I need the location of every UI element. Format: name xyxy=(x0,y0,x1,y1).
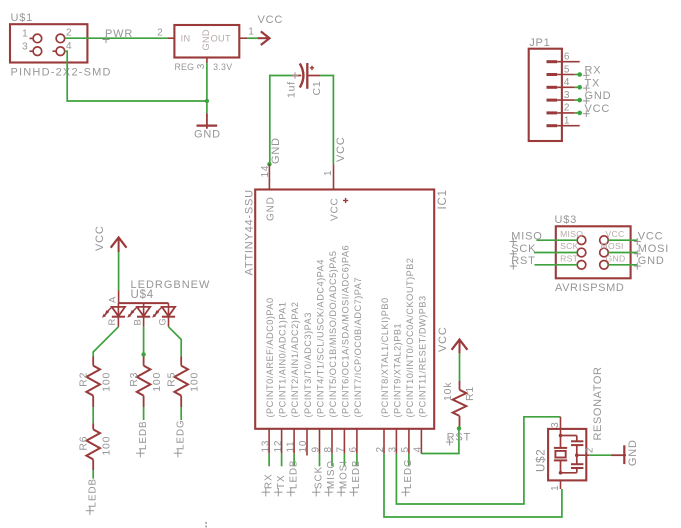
svg-text:4: 4 xyxy=(66,41,72,52)
connector U$3 right pad GND xyxy=(600,261,609,270)
svg-text:AVRISPSMD: AVRISPSMD xyxy=(555,282,624,294)
svg-text:5: 5 xyxy=(400,446,411,452)
LED U$4 pin name B xyxy=(132,318,143,325)
svg-text:1: 1 xyxy=(323,170,334,176)
wire C1 right (VCC side) xyxy=(320,76,333,165)
junction node JP1 pin 4 xyxy=(577,85,582,90)
svg-text:C1: C1 xyxy=(311,80,323,95)
svg-text:MOSI: MOSI xyxy=(339,460,350,489)
svg-text:3: 3 xyxy=(196,63,207,69)
svg-text:U$3: U$3 xyxy=(555,214,578,226)
svg-text:2: 2 xyxy=(66,28,72,39)
regulator pin 1 OUT wire xyxy=(239,27,259,39)
connector U$3 pin name VCC xyxy=(606,229,625,239)
wire MISO to U$3 xyxy=(537,239,578,241)
svg-text:2: 2 xyxy=(157,27,163,38)
svg-text:14: 14 xyxy=(260,165,271,178)
svg-text:RST: RST xyxy=(511,255,535,267)
connector U$1 pin 2 xyxy=(56,28,72,43)
connector U$3 pin name RST xyxy=(560,254,579,264)
power symbol VCC (above R1) xyxy=(437,326,467,353)
svg-text:100: 100 xyxy=(151,372,163,392)
svg-text:11: 11 xyxy=(285,441,296,453)
IC1 pin 2 name xyxy=(380,297,390,417)
resistor R1 value 10k xyxy=(442,382,454,401)
connector U$1 pin 4 xyxy=(53,41,73,56)
svg-text:R5: R5 xyxy=(166,372,178,387)
svg-text:TX: TX xyxy=(585,77,601,89)
IC1 pin 6 number xyxy=(348,446,359,452)
IC1 pin 12 stub xyxy=(281,429,283,454)
IC1 pin 9 number xyxy=(311,446,322,452)
svg-text:VCC: VCC xyxy=(437,326,449,352)
connector U$3 pin name MOSI xyxy=(601,241,624,251)
svg-text:VCC: VCC xyxy=(638,231,664,243)
svg-text:IN: IN xyxy=(181,33,191,43)
svg-text:G: G xyxy=(157,317,168,325)
svg-text:100: 100 xyxy=(101,372,113,392)
junction node (pin4/regulator GND) xyxy=(205,99,209,103)
svg-text:VCC: VCC xyxy=(335,136,347,162)
capacitor C1 name xyxy=(311,80,323,95)
net label LEDB (below R3) xyxy=(136,420,149,457)
svg-text:VCC: VCC xyxy=(585,103,611,115)
resistor R2 value 100 xyxy=(101,372,113,392)
connector U$3 value AVRISPSMD xyxy=(555,282,624,294)
svg-text:U$4: U$4 xyxy=(131,289,155,301)
svg-text:2: 2 xyxy=(585,447,596,453)
IC1 pin 9 name xyxy=(316,259,326,417)
power symbol VCC (top, pointing right) xyxy=(258,14,284,45)
IC1 pin 2 number xyxy=(375,446,386,452)
net label GND (resonator) xyxy=(627,439,639,466)
wire SCK to U$3 xyxy=(534,252,577,254)
wire R2 to R6 xyxy=(92,407,94,423)
svg-text:R2: R2 xyxy=(78,372,90,387)
svg-text:(PCINT7/ICP/OC0B/ADC7)PA7: (PCINT7/ICP/OC0B/ADC7)PA7 xyxy=(353,277,363,417)
net label GND (U$3 right) xyxy=(634,255,665,270)
svg-text:10k: 10k xyxy=(442,382,454,401)
IC1 reference IC1 xyxy=(437,189,449,209)
connector U$3 body xyxy=(556,226,631,278)
wire IC1 pin4 to RST junction xyxy=(421,428,459,453)
IC1 pin 10 stub xyxy=(306,429,308,456)
IC1 body xyxy=(255,190,434,429)
net label TX xyxy=(274,474,287,496)
svg-text:3: 3 xyxy=(388,446,399,452)
IC1 pin 13 stub xyxy=(268,429,270,454)
wire U$3 to GND xyxy=(608,264,637,266)
svg-text:3: 3 xyxy=(550,422,561,428)
connector U$1 pin 1 xyxy=(22,29,42,43)
resonator U$2 internal capacitors xyxy=(561,436,584,473)
regulator value 3.3V xyxy=(213,62,232,72)
svg-text:RESONATOR: RESONATOR xyxy=(592,366,604,440)
svg-text:SCK: SCK xyxy=(560,241,579,251)
svg-text:LEDG: LEDG xyxy=(403,458,414,489)
svg-text:R6: R6 xyxy=(78,436,90,451)
IC1 pin 1 stub xyxy=(333,164,335,189)
header JP1 pin 3 xyxy=(547,90,575,101)
wire IC1 pin net RX xyxy=(268,454,270,467)
resonator U$2 pin 3 stub xyxy=(560,417,562,436)
net label LEDB (below R6) xyxy=(86,478,99,515)
svg-text:VCC: VCC xyxy=(606,229,625,239)
IC1 pin 10 name xyxy=(303,312,313,417)
header JP1 pin 6 xyxy=(547,52,580,63)
svg-text:(PCINT5/OC1B/MISO/DO/ADC5)PA5: (PCINT5/OC1B/MISO/DO/ADC5)PA5 xyxy=(328,251,338,418)
resonator U$2 pin 3 number xyxy=(550,422,561,428)
connector U$3 left pad SCK xyxy=(577,248,586,257)
net label VCC (JP1) xyxy=(583,103,610,117)
IC1 pin 12 name xyxy=(278,301,288,417)
svg-text:LEDG: LEDG xyxy=(175,419,186,450)
IC1 pin 8 name xyxy=(328,251,338,418)
header JP1 pin 5 xyxy=(547,64,575,75)
regulator pin IN name xyxy=(181,33,191,43)
resistor R1 name xyxy=(464,386,476,401)
regulator pin GND name xyxy=(201,29,211,50)
svg-text:GND: GND xyxy=(606,254,626,264)
wire junction to GND symbol xyxy=(206,101,208,113)
wire VCC to U$4 anode xyxy=(118,252,120,291)
resistor R1 xyxy=(453,381,467,428)
svg-text:MOSI: MOSI xyxy=(638,243,669,255)
wire IC1 pin2 to resonator pin1 xyxy=(384,454,562,517)
svg-text:(PCINT8/XTAL1/CLKI)PB0: (PCINT8/XTAL1/CLKI)PB0 xyxy=(380,297,390,417)
svg-text:RX: RX xyxy=(585,65,602,77)
svg-text:B: B xyxy=(132,318,143,325)
svg-text:JP1: JP1 xyxy=(529,37,550,49)
connector U$1 value label xyxy=(11,67,112,79)
svg-text:GND: GND xyxy=(201,29,211,50)
net label PWR xyxy=(103,28,134,43)
svg-text:1: 1 xyxy=(248,27,254,38)
svg-text:10: 10 xyxy=(298,440,309,453)
junction node RST xyxy=(457,426,461,430)
connector U$3 pin name GND xyxy=(606,254,626,264)
junction node LED B wire xyxy=(141,352,145,356)
IC1 pin 9 stub xyxy=(319,429,321,454)
svg-text:7: 7 xyxy=(336,446,347,452)
svg-text:REG: REG xyxy=(175,62,195,72)
wire R6 to LEDB label xyxy=(92,470,94,479)
svg-text:2: 2 xyxy=(564,103,570,114)
IC1 pin 1 number xyxy=(323,170,334,176)
resistor R6 xyxy=(86,423,100,470)
svg-text:LEDB: LEDB xyxy=(288,459,299,489)
wire JP1 pin 4 stub xyxy=(575,86,580,88)
svg-text:MISO: MISO xyxy=(511,231,542,243)
IC1 pin 1 name VCC xyxy=(329,197,340,221)
svg-text:PINHD-2X2-SMD: PINHD-2X2-SMD xyxy=(11,67,112,79)
resonator U$2 bottom junction xyxy=(559,471,563,475)
svg-text:(PCINT3/T0/ADC3)PA3: (PCINT3/T0/ADC3)PA3 xyxy=(303,312,313,417)
svg-text:3.3V: 3.3V xyxy=(213,62,232,72)
svg-text:8: 8 xyxy=(323,446,334,452)
connector U$1 pin 3 xyxy=(22,42,42,56)
regulator pin 2 number xyxy=(157,27,163,38)
svg-text:U$2: U$2 xyxy=(535,449,547,473)
svg-text:1uf: 1uf xyxy=(285,81,297,98)
resistor R6 name xyxy=(78,436,90,451)
LED U$4 anode bus xyxy=(118,302,168,304)
wire IC1 pin net LEDB xyxy=(293,454,295,467)
wire resonator pin2 to GND xyxy=(589,454,611,456)
svg-text:A: A xyxy=(107,296,118,303)
IC1 pin 14 number xyxy=(260,165,271,178)
svg-text:SCK: SCK xyxy=(511,243,536,255)
junction node at IC1 pin 14 xyxy=(267,162,271,166)
resonator U$2 mid junction xyxy=(575,453,579,457)
wire PWR net (U$1 pin2 to regulator IN) xyxy=(65,37,175,39)
IC1 pin 11 stub xyxy=(293,429,295,454)
IC1 pin 13 number xyxy=(260,440,271,453)
net label MISO (U$3 left) xyxy=(510,231,543,246)
svg-text:1: 1 xyxy=(550,485,561,491)
svg-text:100: 100 xyxy=(189,372,201,392)
header JP1 pin 2 xyxy=(547,103,575,114)
svg-text:SCK: SCK xyxy=(314,466,325,489)
svg-text:LEDB: LEDB xyxy=(351,459,362,489)
IC1 pin 10 number xyxy=(298,440,309,453)
resonator U$2 pin 1 stub xyxy=(560,480,562,489)
capacitor C1 symbol xyxy=(291,63,320,89)
svg-text:(PCINT4/T1/SCL/USCK/ADC4)PA4: (PCINT4/T1/SCL/USCK/ADC4)PA4 xyxy=(316,259,326,417)
resonator U$2 crystal xyxy=(554,436,567,473)
svg-text:(PCINT0/AREF/ADC0)PA0: (PCINT0/AREF/ADC0)PA0 xyxy=(265,297,275,417)
wire JP1 pin 5 stub xyxy=(575,74,580,76)
IC1 pin 4 name xyxy=(417,295,427,417)
wire LED B cathode to R3 xyxy=(143,327,145,355)
svg-text:GND: GND xyxy=(638,255,665,267)
IC1 pin 14 stub xyxy=(268,164,270,189)
svg-text:U$1: U$1 xyxy=(11,12,34,24)
svg-text:GND: GND xyxy=(265,196,276,221)
wire C1 left (GND side) xyxy=(270,76,292,165)
net label RST (U$3 left) xyxy=(510,255,536,270)
net label MOSI xyxy=(337,460,350,496)
svg-text:(PCINT11/RESET/DW)PB3: (PCINT11/RESET/DW)PB3 xyxy=(417,295,427,417)
svg-text:(PCINT1/AIN0/ADC1)PA1: (PCINT1/AIN0/ADC1)PA1 xyxy=(278,301,288,417)
svg-text:100: 100 xyxy=(101,436,113,456)
LED U$4 part type LEDRGBNEW xyxy=(131,279,211,291)
net label SCK (U$3 left) xyxy=(510,243,537,257)
svg-text:LEDB: LEDB xyxy=(138,420,149,450)
net label RX xyxy=(262,473,275,496)
IC1 pin 3 number xyxy=(388,446,399,452)
IC1 pin 11 number xyxy=(285,441,296,453)
regulator pin 3 GND wire xyxy=(206,58,208,102)
svg-text:MISO: MISO xyxy=(560,229,583,239)
svg-text:1: 1 xyxy=(22,29,28,40)
connector U$3 pin name MISO xyxy=(560,229,583,239)
svg-text:(PCINT10/INT0/OC0A/CKOUT)PB2: (PCINT10/INT0/OC0A/CKOUT)PB2 xyxy=(405,257,415,417)
svg-text:GND: GND xyxy=(627,439,639,466)
resistor R5 xyxy=(174,357,188,408)
net label MISO xyxy=(325,460,338,496)
LED U$4 name xyxy=(131,289,155,301)
svg-text:9: 9 xyxy=(311,446,322,452)
svg-text:6: 6 xyxy=(564,52,570,63)
resonator U$2 body xyxy=(548,429,586,481)
resistor R3 name xyxy=(128,372,140,387)
capacitor C1 value 1uf xyxy=(285,81,297,98)
resistor R5 value 100 xyxy=(189,372,201,392)
regulator pin OUT name xyxy=(211,33,231,43)
connector U$1 name label xyxy=(11,12,34,24)
header JP1 pin 1 xyxy=(547,116,580,127)
IC1 part name ATTINY44-SSU xyxy=(244,189,256,275)
connector U$3 left pad MISO xyxy=(577,236,586,245)
regulator pin 3 number xyxy=(196,63,207,69)
IC1 pin 5 name xyxy=(405,257,415,417)
IC1 pin 8 number xyxy=(323,446,334,452)
IC1 pin 14 name GND xyxy=(265,196,276,221)
resistor R3 xyxy=(137,357,151,408)
regulator name REG xyxy=(175,62,195,72)
svg-text:ATTINY44-SSU: ATTINY44-SSU xyxy=(244,189,256,275)
svg-text:R: R xyxy=(107,318,118,326)
wire IC1 pin net TX xyxy=(281,454,283,467)
connector U$3 name xyxy=(555,214,578,226)
net label RST xyxy=(446,432,471,446)
LED U$4 G diode xyxy=(152,303,175,327)
IC1 pin 6 name xyxy=(353,277,363,417)
wire IC1 pin net MOSI xyxy=(343,454,345,467)
LED U$4 anode lead xyxy=(118,291,120,304)
svg-text:PWR: PWR xyxy=(105,28,133,40)
net label LEDG xyxy=(401,458,414,496)
svg-text:RST: RST xyxy=(560,254,579,264)
svg-text:(PCINT2/AIN1/ADC2)PA2: (PCINT2/AIN1/ADC2)PA2 xyxy=(290,301,300,417)
svg-text:GND: GND xyxy=(194,129,221,141)
regulator body xyxy=(174,25,239,58)
IC1 pin 4 stub xyxy=(420,429,422,454)
svg-text:GND: GND xyxy=(270,137,282,164)
svg-text:VCC: VCC xyxy=(94,225,106,251)
IC1 pin 5 stub xyxy=(408,429,410,454)
header JP1 name xyxy=(529,37,550,49)
net label GND (JP1) xyxy=(583,90,611,104)
wire IC1 pin net MISO xyxy=(331,454,333,467)
resonator U$2 pin 2 number xyxy=(585,447,596,453)
svg-text:VCC: VCC xyxy=(258,14,284,26)
resistor R5 name xyxy=(166,372,178,387)
net label MOSI (U$3 right) xyxy=(634,243,669,257)
header JP1 pin 4 xyxy=(547,77,575,88)
svg-text:(PCINT6/OC1A/SDA/MOSI/ADC6)PA6: (PCINT6/OC1A/SDA/MOSI/ADC6)PA6 xyxy=(340,245,350,418)
IC1 VCC plus mark xyxy=(343,198,348,203)
net label LEDB xyxy=(287,459,300,496)
wire LED R cathode to R2 xyxy=(93,327,118,357)
LED U$4 R diode xyxy=(102,303,125,327)
net label LEDB xyxy=(349,459,362,496)
wire IC1 pin net LEDG xyxy=(408,454,410,467)
svg-text:3: 3 xyxy=(564,90,570,101)
resistor R2 xyxy=(86,357,100,408)
connector U$3 right pad VCC xyxy=(600,236,609,245)
wire IC1 pin net LEDB xyxy=(356,454,358,467)
connector U$3 pin name SCK xyxy=(560,241,579,251)
wire JP1 pin 3 stub xyxy=(575,99,580,101)
svg-text:MOSI: MOSI xyxy=(601,241,624,251)
resonator U$2 top junction xyxy=(559,434,563,438)
wire IC1 pin net SCK xyxy=(319,454,321,467)
IC1 pin 6 stub xyxy=(356,429,358,454)
svg-text:2: 2 xyxy=(375,446,386,452)
svg-text:(PCINT9/XTAL2)PB1: (PCINT9/XTAL2)PB1 xyxy=(392,323,402,418)
resistor R6 value 100 xyxy=(101,436,113,456)
net label SCK xyxy=(312,466,325,497)
junction node JP1 pin 2 xyxy=(577,111,582,116)
svg-text:OUT: OUT xyxy=(211,33,231,43)
wire LED G cathode to R5 xyxy=(169,327,182,357)
header JP1 body xyxy=(529,49,562,141)
svg-text:GND: GND xyxy=(585,90,612,102)
IC1 pin 7 stub xyxy=(343,429,345,454)
IC1 pin 8 stub xyxy=(331,429,333,454)
net label RX (JP1) xyxy=(583,65,601,79)
svg-text:LEDB: LEDB xyxy=(87,478,98,508)
net label TX (JP1) xyxy=(583,77,600,91)
wire U$3 to VCC xyxy=(608,239,637,241)
IC1 pin 7 name xyxy=(340,245,350,418)
svg-text:RX: RX xyxy=(263,473,274,489)
svg-text:13: 13 xyxy=(260,440,271,453)
ground symbol GND (below regulator) xyxy=(194,113,221,140)
wire RST to U$3 xyxy=(535,264,578,266)
wire R3 to LEDB label xyxy=(143,407,145,420)
resistor R3 value 100 xyxy=(151,372,163,392)
wire IC1 pin3 to resonator pin3 xyxy=(396,417,560,504)
svg-text:R3: R3 xyxy=(128,372,140,387)
junction node JP1 pin 5 xyxy=(577,72,582,77)
net label GND (left of pin 14 wire) xyxy=(270,137,282,164)
svg-text:MISO: MISO xyxy=(326,460,337,489)
resonator U$2 name xyxy=(535,449,547,473)
LED U$4 pin name G xyxy=(157,317,168,325)
connector U$3 left pad RST xyxy=(577,261,586,270)
svg-text:R1: R1 xyxy=(464,386,476,401)
svg-text:4: 4 xyxy=(413,446,424,452)
ground symbol GND (right of resonator) xyxy=(611,445,626,464)
IC1 pin 7 number xyxy=(336,446,347,452)
svg-text:TX: TX xyxy=(276,474,287,489)
stray mark xyxy=(205,522,207,528)
wire U$1 pin4 to GND junction xyxy=(65,51,207,101)
LED U$4 B diode xyxy=(127,303,150,327)
IC1 pin 2 stub xyxy=(383,429,385,454)
svg-text:6: 6 xyxy=(348,446,359,452)
net label VCC (U$3 right) xyxy=(634,231,664,246)
resonator U$2 pin 1 number xyxy=(550,485,561,491)
power symbol VCC (above U$4) xyxy=(94,225,127,252)
svg-text:12: 12 xyxy=(273,440,284,453)
svg-text:4: 4 xyxy=(564,77,570,88)
IC1 pin 12 number xyxy=(273,440,284,453)
net label VCC (right wire above pin 1) xyxy=(335,136,347,162)
connector U$3 right pad MOSI xyxy=(600,248,609,257)
wire JP1 pin 2 stub xyxy=(575,112,580,114)
svg-text:5: 5 xyxy=(564,64,570,75)
IC1 pin 5 number xyxy=(400,446,411,452)
junction node JP1 pin 3 xyxy=(577,98,582,103)
net label LEDG (below R5) xyxy=(174,419,187,457)
IC1 pin 3 name xyxy=(392,323,402,418)
wire VCC to R1 xyxy=(459,353,461,381)
IC1 pin 3 stub xyxy=(395,429,397,454)
